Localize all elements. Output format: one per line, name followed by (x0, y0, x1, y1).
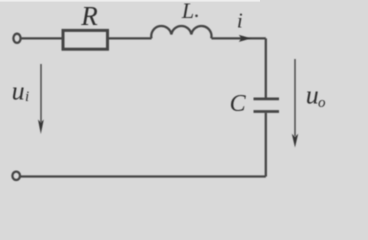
resistor R (63, 30, 108, 49)
inductor L (151, 26, 211, 38)
wire: capacitor bottom plate down to bottom rail (265, 113, 267, 177)
svg-text:u: u (12, 76, 25, 105)
svg-text:C: C (230, 91, 247, 117)
wire: right vertical, corner down to capacitor top plate (265, 38, 267, 97)
svg-text:i: i (25, 89, 29, 105)
u_o voltage arrow (294, 59, 296, 136)
current arrow i (on top wire) (239, 35, 252, 42)
wire: inductor to top-right corner (212, 37, 266, 39)
svg-text:u: u (306, 80, 319, 109)
wire: resistor to inductor (109, 37, 152, 39)
capacitor C top plate (254, 98, 280, 101)
svg-text:L: L (181, 0, 194, 23)
wire: top-left terminal to resistor (22, 37, 62, 39)
faint light scan edge at top (0, 0, 260, 2)
wire: bottom rail (21, 175, 266, 177)
svg-text:i: i (237, 8, 243, 32)
input terminal (top-left) (13, 34, 20, 43)
output terminal (bottom-left) (12, 172, 20, 180)
svg-text:o: o (318, 95, 326, 111)
svg-text:R: R (80, 1, 98, 31)
stray dot after L (195, 15, 198, 18)
capacitor C bottom plate (254, 110, 280, 113)
u_i voltage arrow (40, 64, 42, 122)
